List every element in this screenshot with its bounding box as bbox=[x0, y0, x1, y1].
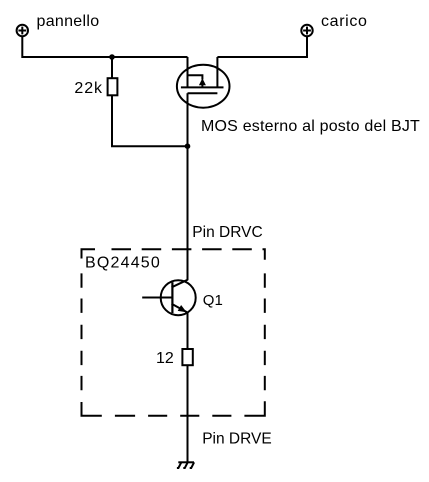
terminal carico (+) bbox=[301, 25, 312, 36]
MOSFET source lead (left vertical) bbox=[187, 57, 189, 87]
svg-text:carico: carico bbox=[321, 13, 368, 30]
wire resistor 12 to ground bbox=[187, 365, 189, 462]
wire gate node down to Q1 collector bbox=[187, 146, 189, 280]
Q1 base bar bbox=[171, 282, 173, 313]
svg-text:MOS esterno al posto del BJT: MOS esterno al posto del BJT bbox=[201, 118, 420, 135]
transistor Q1 circle bbox=[161, 280, 196, 315]
Q1 base lead bbox=[142, 297, 171, 299]
dashed box BQ24450 bbox=[82, 249, 265, 416]
svg-text:BQ24450: BQ24450 bbox=[85, 255, 161, 272]
resistor 12 bbox=[182, 349, 192, 365]
resistor 22k bbox=[108, 78, 118, 95]
MOSFET body arrow stem bbox=[201, 85, 203, 88]
ground symbol bbox=[177, 462, 194, 468]
svg-text:pannello: pannello bbox=[37, 13, 100, 30]
wire resistor 22k to gate rail bbox=[112, 95, 188, 146]
MOSFET gate lead down bbox=[187, 93, 189, 146]
junction dot at gate node bbox=[185, 143, 191, 149]
MOSFET drain lead (right vertical) bbox=[216, 57, 218, 87]
svg-text:Pin DRVE: Pin DRVE bbox=[202, 430, 272, 447]
MOSFET gate plate bbox=[188, 92, 218, 94]
Q1 collector diagonal bbox=[172, 280, 188, 288]
MOSFET channel line bbox=[181, 86, 224, 88]
svg-text:12: 12 bbox=[156, 350, 174, 367]
svg-text:Q1: Q1 bbox=[203, 292, 223, 309]
terminal pannello (+) bbox=[17, 25, 28, 36]
MOSFET body arrow bbox=[199, 78, 206, 85]
wire Q1 emitter to resistor 12 bbox=[187, 312, 189, 349]
MOSFET body tap horizontal bbox=[188, 75, 203, 79]
wire top rail to carico terminal bbox=[217, 36, 307, 57]
Q1 emitter diagonal bbox=[172, 304, 187, 313]
svg-text:22k: 22k bbox=[74, 80, 103, 97]
junction dot at 22k tap bbox=[109, 54, 115, 60]
svg-text:Pin DRVC: Pin DRVC bbox=[192, 224, 262, 241]
Q1 emitter arrowhead bbox=[178, 305, 187, 312]
wire pannello terminal to top rail bbox=[22, 36, 187, 57]
wire junction to resistor 22k bbox=[111, 57, 113, 78]
MOSFET Q ext: circle bbox=[177, 65, 230, 108]
